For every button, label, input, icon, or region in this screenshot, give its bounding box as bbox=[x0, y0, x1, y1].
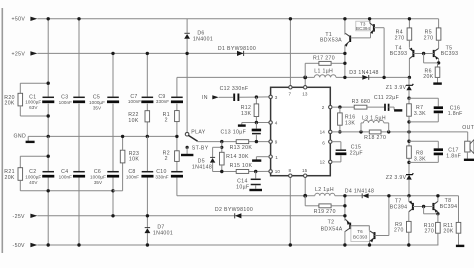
svg-text:BC393: BC393 bbox=[441, 51, 459, 57]
resistor R4 bbox=[395, 17, 412, 48]
svg-text:L3 1.5µH: L3 1.5µH bbox=[362, 115, 386, 121]
transistor T8 bbox=[422, 194, 457, 214]
svg-text:1000µF: 1000µF bbox=[25, 175, 41, 180]
svg-text:R17 270: R17 270 bbox=[313, 55, 335, 61]
wire T4/T5 base tie bbox=[424, 54, 441, 65]
transistor T1 bbox=[320, 17, 350, 79]
inductor L2 bbox=[315, 187, 335, 196]
svg-text:7: 7 bbox=[288, 91, 291, 96]
transistor T2 bbox=[321, 194, 351, 247]
diode D1 bbox=[218, 46, 256, 56]
wire OUT drop bbox=[467, 132, 469, 141]
svg-text:OUT: OUT bbox=[462, 125, 474, 131]
wire OUT node down to R8 bbox=[407, 132, 410, 146]
resistor R16 bbox=[338, 107, 356, 133]
svg-text:+50V: +50V bbox=[12, 17, 26, 23]
resistor R17 bbox=[305, 55, 345, 77]
resistor R18 bbox=[364, 130, 386, 141]
ground R11 bbox=[456, 245, 464, 247]
capacitor C8 bbox=[126, 136, 154, 215]
svg-text:IN: IN bbox=[202, 95, 208, 101]
capacitor C3 bbox=[59, 94, 85, 105]
junction dot C4 bbox=[77, 243, 80, 246]
capacitor C5 bbox=[89, 94, 119, 110]
pin 4 bbox=[269, 121, 278, 126]
svg-text:6: 6 bbox=[322, 140, 325, 145]
svg-text:GND: GND bbox=[14, 134, 27, 140]
svg-text:35V: 35V bbox=[94, 180, 103, 185]
capacitor C4 bbox=[59, 169, 85, 180]
svg-text:D1 BYW98100: D1 BYW98100 bbox=[218, 46, 256, 52]
capacitor C16 bbox=[409, 98, 463, 122]
transistor T5 bbox=[422, 45, 458, 63]
svg-text:22µF: 22µF bbox=[350, 151, 363, 157]
svg-text:12: 12 bbox=[320, 160, 326, 165]
wire play to pin 9 bbox=[198, 140, 269, 143]
resistor R11 bbox=[443, 196, 461, 245]
capacitor C10 bbox=[155, 169, 183, 180]
resistor R22 bbox=[128, 111, 149, 124]
wire R21 bottom rail to C6 node bbox=[48, 190, 113, 192]
resistor R1 bbox=[163, 111, 180, 124]
resistor R3 bbox=[352, 99, 385, 109]
svg-text:BC394: BC394 bbox=[440, 204, 458, 210]
pin 14 bbox=[320, 130, 332, 135]
speaker load bbox=[464, 140, 474, 160]
diode D2 bbox=[215, 207, 253, 218]
svg-text:20K: 20K bbox=[4, 175, 14, 181]
node +25V arrow bbox=[30, 51, 37, 55]
pin 15 bbox=[302, 168, 308, 178]
svg-text:20K: 20K bbox=[4, 101, 14, 107]
wire +25V rail (through D1 to T1 emitter node) bbox=[37, 52, 345, 54]
svg-text:1000µF: 1000µF bbox=[25, 99, 41, 104]
svg-text:BC394: BC394 bbox=[356, 26, 371, 31]
svg-text:13K: 13K bbox=[241, 111, 251, 117]
wire C3 branch vertical bbox=[78, 19, 80, 137]
wire C1 branch vertical bbox=[47, 19, 49, 137]
svg-text:1N4001: 1N4001 bbox=[153, 231, 173, 237]
wire bias line upper (y77.4) bbox=[177, 76, 409, 78]
svg-text:D7: D7 bbox=[157, 224, 164, 230]
svg-text:2: 2 bbox=[165, 118, 168, 124]
svg-text:D6: D6 bbox=[197, 30, 204, 36]
svg-text:330nF: 330nF bbox=[156, 99, 169, 104]
capacitor C7 bbox=[128, 94, 154, 104]
junction dots C1/R20 bbox=[47, 17, 50, 138]
svg-text:D4 1N4148: D4 1N4148 bbox=[345, 188, 374, 194]
junction dots C7 bbox=[146, 52, 149, 138]
pin 13 bbox=[302, 86, 308, 97]
capacitor C2 bbox=[25, 169, 54, 185]
wire C7/R22 branch vertical bbox=[146, 53, 148, 136]
diode D4 bbox=[345, 188, 374, 198]
svg-text:8: 8 bbox=[288, 168, 291, 173]
resistor R20 bbox=[4, 83, 48, 116]
svg-text:2: 2 bbox=[165, 156, 168, 162]
resistor R10 bbox=[424, 214, 440, 245]
svg-text:R13 20K: R13 20K bbox=[230, 145, 253, 151]
svg-text:T2: T2 bbox=[328, 219, 335, 225]
svg-text:1.8nF: 1.8nF bbox=[446, 153, 461, 159]
svg-text:3.3K: 3.3K bbox=[414, 111, 426, 117]
node IN arrow bbox=[212, 95, 218, 99]
diode D3 bbox=[349, 70, 378, 80]
wire T7/T8 base tie bbox=[424, 207, 440, 216]
transistor T3 bbox=[351, 17, 386, 79]
node -50V arrow bbox=[30, 243, 37, 247]
svg-text:100nF: 100nF bbox=[126, 175, 139, 180]
resistor R2 bbox=[163, 151, 180, 163]
svg-text:10K: 10K bbox=[128, 118, 138, 124]
ground C11 bbox=[394, 107, 402, 110]
resistor R6 bbox=[423, 63, 440, 83]
junction dot GND/R1/R2 bbox=[175, 135, 178, 138]
capacitor C6 bbox=[90, 169, 119, 185]
svg-text:2: 2 bbox=[322, 105, 325, 110]
svg-text:-25V: -25V bbox=[13, 214, 26, 220]
wire C5 branch vertical bbox=[112, 53, 114, 136]
capacitor C13 bbox=[220, 123, 261, 142]
node +50V label bbox=[12, 17, 26, 23]
diode D6 bbox=[184, 19, 213, 133]
wire pin 7 supply vertical bbox=[289, 17, 292, 86]
svg-text:1: 1 bbox=[275, 155, 278, 160]
svg-text:BDX54A: BDX54A bbox=[321, 226, 343, 232]
svg-text:9: 9 bbox=[275, 140, 278, 145]
wire Z1 node to R7 bbox=[407, 97, 410, 104]
pin 9 bbox=[269, 140, 278, 145]
capacitor C9 bbox=[156, 94, 183, 104]
svg-text:R14 30K: R14 30K bbox=[226, 154, 249, 160]
wire C4 branch vertical bbox=[78, 136, 80, 245]
junction dots C2/R21 bbox=[47, 155, 50, 247]
wire C2 branch vertical bbox=[47, 136, 49, 245]
wire GND rail bbox=[28, 135, 177, 137]
svg-text:20K: 20K bbox=[443, 229, 453, 235]
junction dots C3 bbox=[77, 17, 80, 20]
svg-text:330nF: 330nF bbox=[155, 175, 168, 180]
svg-text:1.8nF: 1.8nF bbox=[448, 111, 463, 117]
svg-text:BDX53A: BDX53A bbox=[320, 37, 342, 43]
node +25V label bbox=[12, 51, 26, 57]
node IN label bbox=[202, 95, 208, 101]
svg-text:270: 270 bbox=[394, 228, 404, 234]
capacitor C12 bbox=[220, 86, 249, 101]
resistor R14 bbox=[220, 142, 250, 172]
junction dots C6 bbox=[111, 189, 114, 217]
svg-text:63V: 63V bbox=[29, 105, 38, 110]
svg-text:R19 270: R19 270 bbox=[314, 209, 336, 215]
zener Z2 bbox=[386, 173, 414, 197]
svg-text:D3 1N4148: D3 1N4148 bbox=[349, 70, 378, 76]
svg-text:3.3K: 3.3K bbox=[414, 156, 426, 162]
pin 6 bbox=[322, 140, 332, 145]
wire C6 branch vertical bbox=[112, 136, 114, 215]
svg-text:20K: 20K bbox=[423, 74, 433, 80]
capacitor C17 bbox=[409, 141, 461, 162]
inductor L1 bbox=[314, 69, 336, 78]
ground GND symbol bbox=[26, 136, 35, 142]
svg-text:270: 270 bbox=[395, 35, 405, 41]
svg-text:BC393: BC393 bbox=[390, 51, 408, 57]
diode D5 bbox=[192, 147, 222, 171]
wire pin 1 to ground bbox=[252, 157, 269, 161]
svg-text:C13 10µF: C13 10µF bbox=[220, 129, 246, 135]
svg-text:R18 270: R18 270 bbox=[364, 135, 386, 141]
svg-text:BC394: BC394 bbox=[390, 204, 408, 210]
capacitor C14 bbox=[236, 172, 262, 191]
wire pin 14 / output line bbox=[332, 130, 468, 133]
node -50V label bbox=[13, 243, 26, 249]
svg-text:13: 13 bbox=[302, 91, 308, 96]
svg-text:R3 680: R3 680 bbox=[352, 99, 371, 105]
svg-text:13K: 13K bbox=[345, 120, 355, 126]
wire -25V rail (through D2 to T2 emitter node) bbox=[37, 215, 345, 217]
pin 10 bbox=[269, 169, 281, 174]
svg-text:10K: 10K bbox=[129, 157, 139, 163]
wire bias line lower (y195.8) bbox=[177, 195, 459, 197]
resistor R5 bbox=[424, 19, 441, 48]
pin 1 bbox=[269, 155, 278, 160]
pin 2 bbox=[322, 105, 332, 110]
resistor R12 bbox=[241, 95, 259, 122]
svg-text:100nF: 100nF bbox=[59, 175, 72, 180]
svg-text:L2 1µH: L2 1µH bbox=[315, 187, 334, 193]
inductor L3 bbox=[361, 115, 389, 131]
node OUT label bbox=[462, 125, 474, 131]
svg-text:270: 270 bbox=[424, 35, 434, 41]
wire +50V rail bbox=[37, 18, 438, 20]
svg-text:C12 330nF: C12 330nF bbox=[220, 86, 249, 92]
svg-text:10: 10 bbox=[275, 169, 281, 174]
svg-text:100nF: 100nF bbox=[128, 99, 141, 104]
node -25V arrow bbox=[30, 214, 37, 218]
resistor R13 bbox=[230, 140, 253, 151]
svg-text:10µF: 10µF bbox=[236, 184, 249, 190]
svg-text:100nF: 100nF bbox=[59, 100, 72, 105]
svg-text:C11 22µF: C11 22µF bbox=[374, 95, 399, 101]
resistor R9 bbox=[394, 221, 411, 246]
transistor T4 bbox=[390, 45, 424, 79]
svg-text:14: 14 bbox=[320, 130, 326, 135]
ground ST-BY bbox=[181, 147, 193, 155]
svg-text:40V: 40V bbox=[29, 180, 38, 185]
pin 3 bbox=[269, 95, 278, 100]
wire pin 8 supply vertical bbox=[289, 177, 292, 246]
ground R6 bbox=[433, 82, 442, 84]
pin 8 bbox=[288, 168, 292, 178]
junction dots C8/D7 bbox=[146, 214, 149, 247]
svg-text:R15 10K: R15 10K bbox=[230, 163, 253, 169]
svg-text:PLAY: PLAY bbox=[191, 130, 205, 136]
switch ST-BY contact bbox=[186, 146, 209, 152]
wire C9/R1 branch vertical bbox=[176, 77, 178, 195]
svg-text:1000µF: 1000µF bbox=[89, 100, 105, 105]
svg-text:L1 1µH: L1 1µH bbox=[314, 69, 333, 75]
wire pin 10 line bbox=[213, 170, 269, 173]
pin 12 bbox=[320, 160, 332, 165]
wire pin 15 vertical bbox=[303, 177, 307, 197]
transistor T7 bbox=[390, 196, 424, 222]
wire pin 2 feedback line bbox=[332, 105, 354, 108]
resistor R8 bbox=[407, 146, 426, 175]
node -25V label bbox=[13, 214, 26, 220]
junction dots C5 bbox=[111, 52, 114, 55]
node +50V arrow bbox=[30, 17, 37, 21]
resistor R7 bbox=[407, 104, 426, 132]
svg-text:T6: T6 bbox=[357, 229, 363, 234]
SEC:border bbox=[1, 8, 3, 253]
resistor R21 bbox=[4, 156, 48, 191]
resistor R15 bbox=[230, 163, 253, 173]
svg-text:3: 3 bbox=[275, 95, 278, 100]
diode D7 bbox=[145, 216, 174, 245]
svg-text:ST-BY: ST-BY bbox=[192, 146, 209, 152]
capacitor C15 bbox=[332, 142, 363, 162]
resistor R19 bbox=[305, 196, 345, 215]
svg-text:1N4001: 1N4001 bbox=[193, 37, 213, 43]
switch arm bbox=[188, 135, 197, 141]
svg-text:D2 BYW98100: D2 BYW98100 bbox=[215, 207, 253, 213]
wire pin 13 vertical bbox=[303, 76, 307, 86]
svg-text:Z2 3.9V: Z2 3.9V bbox=[386, 175, 407, 181]
op-amp U1 TDA7250 body bbox=[271, 87, 331, 175]
svg-text:1N4148: 1N4148 bbox=[192, 164, 212, 170]
svg-text:270: 270 bbox=[424, 229, 434, 235]
wire IN to pin 3 bbox=[219, 96, 269, 98]
wire pin 4 to ground bbox=[238, 121, 269, 126]
capacitor C11 bbox=[374, 95, 399, 111]
svg-text:BC393: BC393 bbox=[353, 235, 368, 240]
svg-text:+25V: +25V bbox=[12, 51, 26, 57]
transistor T6 bbox=[351, 194, 391, 247]
pin 7 bbox=[288, 86, 292, 97]
capacitor C1 bbox=[25, 94, 54, 110]
wire -50V rail bbox=[37, 244, 438, 246]
svg-text:15: 15 bbox=[302, 168, 308, 173]
svg-text:35V: 35V bbox=[93, 106, 102, 111]
node GND label bbox=[14, 134, 27, 140]
svg-text:-50V: -50V bbox=[13, 243, 26, 249]
svg-text:1000µF: 1000µF bbox=[90, 175, 106, 180]
svg-text:4: 4 bbox=[275, 121, 278, 126]
resistor R23 bbox=[113, 135, 139, 191]
switch PLAY contact bbox=[185, 130, 205, 136]
zener Z1 bbox=[386, 77, 414, 98]
svg-text:Z1 3.9V: Z1 3.9V bbox=[386, 85, 407, 91]
